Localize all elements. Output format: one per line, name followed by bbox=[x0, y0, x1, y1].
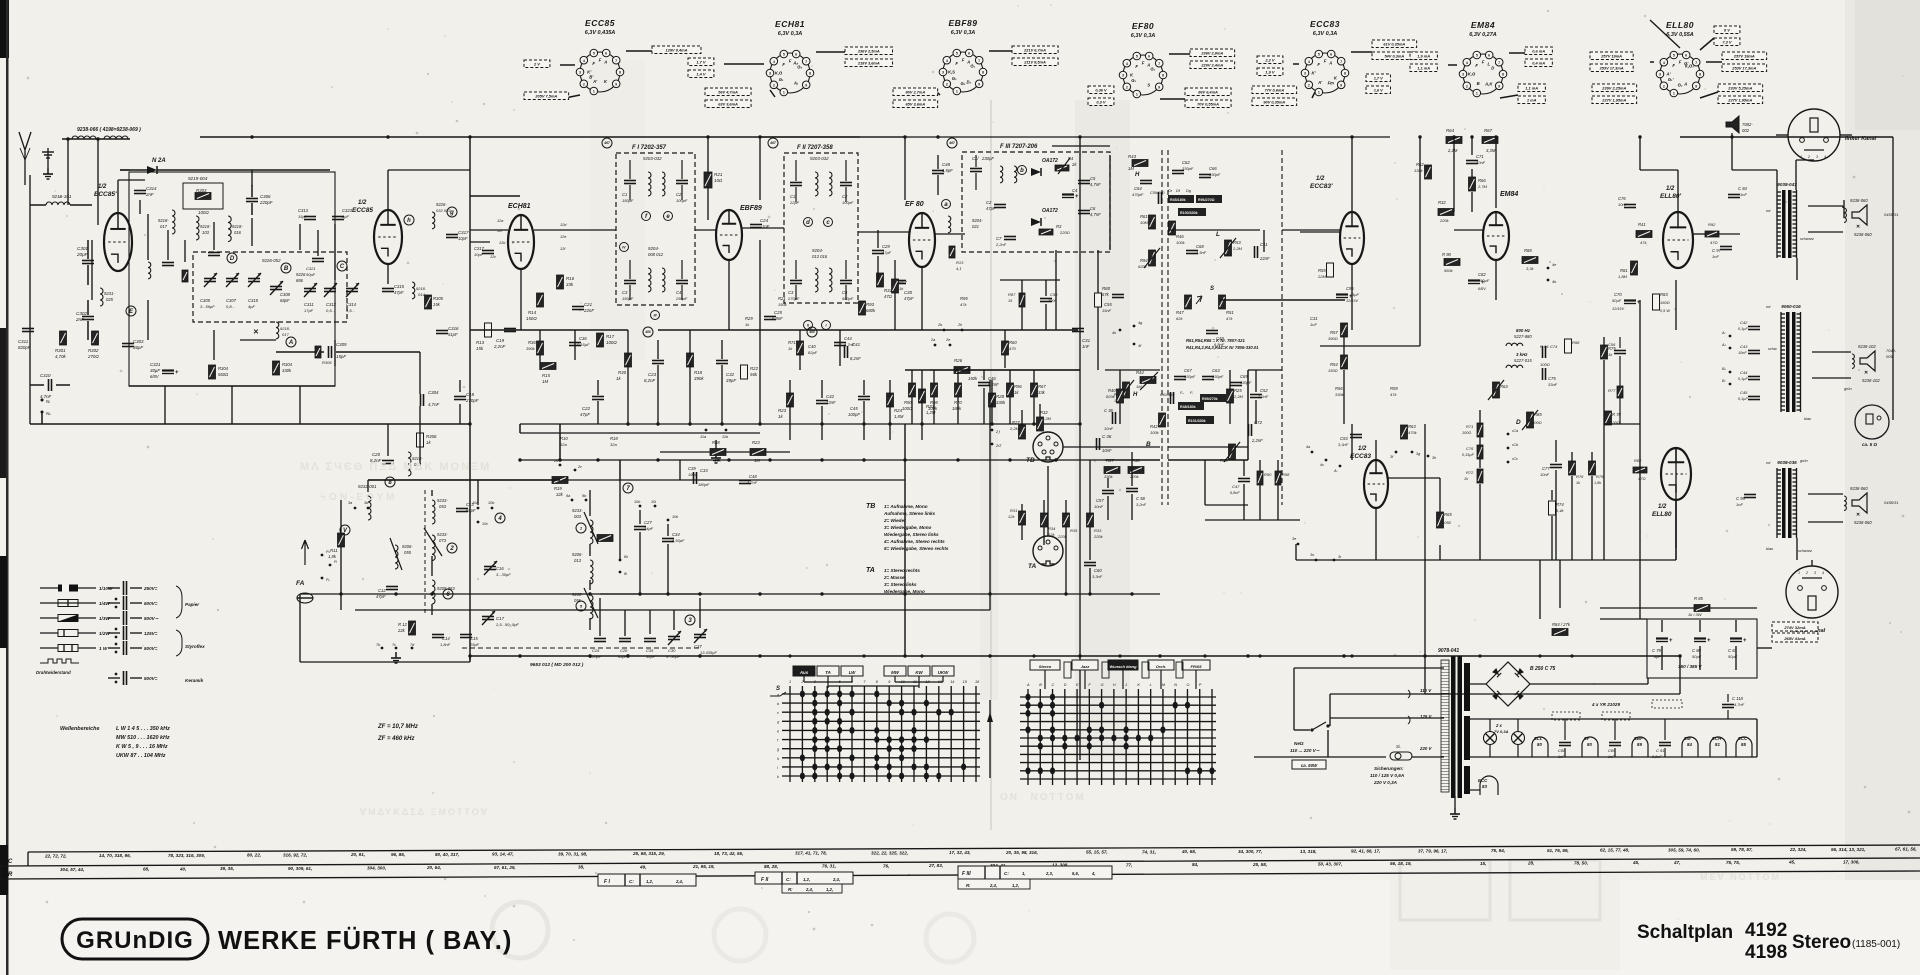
svg-text:500V∼: 500V∼ bbox=[144, 616, 159, 621]
svg-text:820k: 820k bbox=[1106, 394, 1116, 399]
svg-text:G: G bbox=[1101, 683, 1104, 687]
svg-text:74, 31,: 74, 31, bbox=[1142, 849, 1156, 854]
svg-text:TB: TB bbox=[1026, 457, 1035, 464]
svg-text:218V 3,6mA: 218V 3,6mA bbox=[857, 60, 880, 65]
svg-text:R87: R87 bbox=[1008, 292, 1016, 297]
svg-text:9218-: 9218- bbox=[200, 224, 211, 229]
svg-text:125V=: 125V= bbox=[144, 631, 158, 636]
svg-text:O: O bbox=[1186, 683, 1189, 687]
svg-text:R34: R34 bbox=[1048, 526, 1056, 531]
capacitor C13 58pF bbox=[456, 508, 468, 510]
svg-text:7V 0,3A: 7V 0,3A bbox=[1494, 729, 1509, 734]
svg-text:25, 58,: 25, 58, bbox=[1252, 862, 1267, 867]
wires mid lower bbox=[863, 380, 865, 395]
caps C74 C75 bbox=[1542, 346, 1544, 358]
svg-text:013 016: 013 016 bbox=[812, 254, 828, 259]
svg-text:4,1: 4,1 bbox=[956, 266, 962, 271]
svg-text:ECC: ECC bbox=[1738, 736, 1748, 741]
svg-text:800 Hz: 800 Hz bbox=[1516, 328, 1531, 333]
resistor R68 boxed bbox=[1565, 339, 1572, 353]
svg-text:58pF: 58pF bbox=[466, 508, 476, 513]
svg-text:C30: C30 bbox=[668, 648, 676, 653]
capacitor C70 50uF bbox=[1624, 299, 1636, 301]
svg-text:1: 1 bbox=[956, 90, 958, 94]
svg-text:221V 6,7mA: 221V 6,7mA bbox=[1023, 47, 1046, 52]
svg-text:1k: 1k bbox=[778, 414, 783, 419]
extra cluster x1250 y450 bbox=[1257, 471, 1263, 485]
heater chain top wire bbox=[1466, 718, 1757, 720]
svg-text:11a: 11a bbox=[700, 435, 706, 439]
bus y480 extension bbox=[620, 479, 905, 481]
svg-text:LW: LW bbox=[849, 670, 856, 675]
svg-text:016: 016 bbox=[234, 230, 242, 235]
svg-text:7: 7 bbox=[1498, 61, 1500, 65]
svg-text:15k: 15k bbox=[433, 302, 441, 307]
svg-text:Wellenbereiche: Wellenbereiche bbox=[60, 726, 99, 732]
svg-text:R35: R35 bbox=[1070, 528, 1078, 533]
resistor R61 10M bbox=[1149, 215, 1156, 229]
svg-text:100k: 100k bbox=[1176, 240, 1186, 245]
svg-text:R72: R72 bbox=[1466, 470, 1474, 475]
svg-text:R21: R21 bbox=[778, 296, 786, 301]
svg-text:R43: R43 bbox=[1128, 154, 1137, 159]
svg-text:R88: R88 bbox=[712, 440, 720, 445]
capacitor C31 1nF bbox=[1072, 328, 1084, 330]
svg-text:12d: 12d bbox=[560, 223, 567, 227]
svg-text:83: 83 bbox=[1482, 784, 1487, 789]
capacitor C23 8,2nF bbox=[652, 360, 664, 362]
svg-text:2,2nF: 2,2nF bbox=[995, 242, 1007, 247]
svg-text:B: B bbox=[1039, 683, 1042, 687]
svg-text:1,5nF: 1,5nF bbox=[1196, 250, 1207, 255]
svg-text:TA: TA bbox=[825, 670, 831, 675]
resistor R42 100k bbox=[1159, 413, 1166, 427]
svg-text:+: + bbox=[1743, 638, 1747, 644]
svg-text:Si.: Si. bbox=[1396, 744, 1401, 749]
F II inner wires bbox=[795, 160, 797, 181]
svg-text:+: + bbox=[1669, 638, 1673, 644]
svg-text:470pF: 470pF bbox=[1132, 192, 1144, 197]
svg-text:55, 15, 57,: 55, 15, 57, bbox=[1086, 850, 1108, 855]
svg-text:56k: 56k bbox=[750, 372, 758, 377]
svg-text:8: 8 bbox=[809, 72, 811, 76]
svg-text:6,3V 0,55A: 6,3V 0,55A bbox=[1666, 32, 1694, 38]
earth symbol bbox=[47, 148, 49, 168]
svg-text:110 V: 110 V bbox=[1420, 688, 1432, 693]
svg-text:R28: R28 bbox=[996, 394, 1005, 399]
svg-text:R95: R95 bbox=[960, 296, 968, 301]
svg-text:e: e bbox=[777, 729, 779, 733]
svg-text:10pF: 10pF bbox=[474, 252, 484, 257]
svg-text:1 mA: 1 mA bbox=[1527, 97, 1537, 102]
capacitor C25 6,8nF bbox=[764, 316, 776, 318]
svg-text:R66: R66 bbox=[1478, 178, 1486, 183]
electrolytic bank box bbox=[1647, 619, 1757, 678]
svg-text:350 / 385 V: 350 / 385 V bbox=[1678, 664, 1702, 669]
resistor R96 1k bbox=[1007, 383, 1014, 397]
svg-text:9653 012 ( MD 200 012 ): 9653 012 ( MD 200 012 ) bbox=[530, 662, 584, 668]
svg-text:Aus: Aus bbox=[799, 670, 809, 675]
x905 upper vertical bbox=[904, 424, 906, 656]
resistor R88b 3,3k bbox=[1522, 257, 1538, 264]
F I inner wires bbox=[629, 160, 631, 179]
svg-text:J: J bbox=[1124, 683, 1127, 687]
svg-text:Bₗ: Bₗ bbox=[1722, 379, 1726, 383]
svg-text:4pF: 4pF bbox=[248, 304, 255, 309]
svg-text:3: 3 bbox=[769, 72, 771, 76]
svg-text:R54: R54 bbox=[1330, 362, 1338, 367]
svg-text:27, 83,: 27, 83, bbox=[928, 863, 943, 868]
svg-text:100k: 100k bbox=[928, 406, 938, 411]
svg-text:C315: C315 bbox=[248, 298, 259, 303]
svg-text:80, 22,: 80, 22, bbox=[247, 853, 261, 858]
svg-text:•Cb: •Cb bbox=[1512, 443, 1518, 447]
svg-text:220k: 220k bbox=[1439, 218, 1450, 223]
svg-text:1nF: 1nF bbox=[1082, 344, 1090, 349]
svg-text:C5: C5 bbox=[1090, 176, 1096, 181]
capacitor C12 47pF bbox=[386, 586, 398, 588]
svg-text:C49: C49 bbox=[1216, 336, 1224, 341]
svg-text:330pF: 330pF bbox=[1212, 374, 1224, 379]
svg-text:R304: R304 bbox=[282, 362, 293, 367]
svg-text:7: 7 bbox=[615, 59, 617, 63]
resistor R82 47 bbox=[1633, 467, 1647, 473]
svg-text:467: 467 bbox=[948, 141, 956, 145]
svg-text:50µF: 50µF bbox=[1612, 298, 1622, 303]
svg-text:15,: 15, bbox=[1480, 861, 1486, 866]
svg-text:220 V: 220 V bbox=[1419, 746, 1433, 751]
svg-text:500V=: 500V= bbox=[144, 601, 158, 606]
svg-text:47pF: 47pF bbox=[580, 412, 590, 417]
svg-text:C: C bbox=[1052, 683, 1055, 687]
svg-text:1 W: 1 W bbox=[99, 646, 108, 651]
svg-text:F: F bbox=[1679, 59, 1682, 64]
svg-text:MW 510 . . . 1620 kHz: MW 510 . . . 1620 kHz bbox=[116, 735, 170, 741]
capacitor C82 50uF bbox=[1468, 279, 1480, 281]
circled h bbox=[404, 215, 414, 225]
svg-text:3e: 3e bbox=[1292, 537, 1296, 541]
svg-text:ELL80: ELL80 bbox=[1652, 511, 1672, 518]
svg-text:8 V: 8 V bbox=[1724, 27, 1730, 32]
svg-text:15k: 15k bbox=[476, 346, 484, 351]
svg-text:2,2M: 2,2M bbox=[1233, 394, 1244, 399]
svg-text:Fₑ: Fₑ bbox=[1180, 391, 1184, 395]
svg-text:4: 4 bbox=[1308, 60, 1310, 64]
svg-text:Jazz: Jazz bbox=[1081, 664, 1089, 669]
svg-text:9b: 9b bbox=[582, 494, 586, 498]
circled C bbox=[337, 261, 347, 271]
svg-text:2,2M: 2,2M bbox=[1232, 246, 1243, 251]
svg-text:40, 68,: 40, 68, bbox=[1181, 849, 1196, 854]
svg-text:330pF: 330pF bbox=[1240, 380, 1252, 385]
ECH81 wires bbox=[470, 229, 508, 231]
svg-text:390k: 390k bbox=[694, 376, 704, 381]
svg-text:UKW 87 . . 104 MHz: UKW 87 . . 104 MHz bbox=[116, 753, 166, 759]
svg-text:h: h bbox=[407, 218, 411, 224]
svg-text:5= Wiedergabe, Stereo rechts: 5= Wiedergabe, Stereo rechts bbox=[884, 546, 949, 551]
svg-text:C22: C22 bbox=[582, 406, 591, 411]
svg-text:4,7nF: 4,7nF bbox=[1090, 212, 1101, 217]
svg-text:ⱯΜΔΥΚΔΣΔ ΞΜΟΤΤΟⱯ: ⱯΜΔΥΚΔΣΔ ΞΜΟΤΤΟⱯ bbox=[359, 807, 489, 817]
svg-text:14: 14 bbox=[950, 680, 954, 684]
svg-text:IV: IV bbox=[622, 245, 626, 249]
svg-text:EM: EM bbox=[1684, 736, 1691, 741]
svg-text:G₁': G₁' bbox=[1668, 77, 1675, 82]
svg-text:56, 314, 13, 321,: 56, 314, 13, 321, bbox=[1831, 847, 1865, 852]
capacitor C60 3,3nF bbox=[1084, 562, 1096, 564]
cap C80 50uF bbox=[1694, 637, 1706, 639]
resistor R80 67k bbox=[1095, 293, 1102, 307]
svg-text:F: F bbox=[955, 61, 958, 66]
svg-text:0,5...: 0,5... bbox=[326, 308, 335, 313]
svg-text:UKW: UKW bbox=[938, 670, 949, 675]
circled V bbox=[340, 525, 350, 535]
svg-text:9233-: 9233- bbox=[437, 498, 448, 503]
svg-text:EM84: EM84 bbox=[1500, 191, 1518, 198]
svg-text:220k: 220k bbox=[1093, 534, 1104, 539]
svg-text:2b: 2b bbox=[937, 323, 942, 327]
svg-text:R79: R79 bbox=[1596, 474, 1604, 479]
svg-text:90V 0,35mA: 90V 0,35mA bbox=[1263, 99, 1285, 104]
resistor R51 47k bbox=[1219, 295, 1226, 309]
svg-text:1k / 3W: 1k / 3W bbox=[1688, 612, 1703, 617]
svg-text:220pF: 220pF bbox=[259, 200, 273, 205]
svg-text:2c: 2c bbox=[577, 465, 582, 469]
svg-text:2: 2 bbox=[1663, 84, 1665, 88]
capacitor C321 30uF electrolytic bbox=[162, 369, 174, 371]
svg-text:C304: C304 bbox=[428, 390, 439, 395]
svg-text:80V 2,7mA: 80V 2,7mA bbox=[905, 89, 925, 94]
svg-text:Wunsch klang: Wunsch klang bbox=[1109, 664, 1137, 669]
capacitor C317 10pF bbox=[446, 234, 458, 236]
svg-text:14, 70, 318, 96,: 14, 70, 318, 96, bbox=[99, 853, 131, 858]
svg-text:R90: R90 bbox=[904, 400, 912, 405]
svg-text:560Ω: 560Ω bbox=[218, 372, 229, 377]
svg-text:12e: 12e bbox=[560, 235, 566, 239]
svg-text:3,3nF: 3,3nF bbox=[1092, 574, 1103, 579]
circled f e bbox=[642, 212, 651, 221]
svg-text:WERKE FÜRTH ( BAY.): WERKE FÜRTH ( BAY.) bbox=[218, 926, 512, 955]
svg-text:10c: 10c bbox=[482, 522, 488, 526]
svg-text:F: F bbox=[1142, 60, 1145, 65]
svg-text:9238-102: 9238-102 bbox=[1858, 344, 1876, 349]
svg-text:12k: 12k bbox=[1048, 532, 1055, 537]
svg-text:C3: C3 bbox=[788, 290, 794, 295]
right matrix contact dots bbox=[1025, 694, 1030, 701]
svg-text:C64: C64 bbox=[1134, 186, 1142, 191]
svg-text:6,3V 0,3A: 6,3V 0,3A bbox=[1131, 33, 1155, 39]
mains switch bbox=[1294, 729, 1310, 731]
svg-text:68pF: 68pF bbox=[280, 298, 290, 303]
mains wires bbox=[1329, 718, 1331, 726]
svg-text:62, 15, 77, 48,: 62, 15, 77, 48, bbox=[1600, 848, 1629, 853]
svg-text:C306: C306 bbox=[260, 194, 271, 199]
svg-text:055: 055 bbox=[404, 550, 412, 555]
svg-text:F: F bbox=[599, 57, 602, 62]
svg-text:45,: 45, bbox=[1632, 860, 1639, 865]
extra cluster x1010-1100 y260-330 bbox=[1019, 293, 1025, 307]
fold crease arrow bbox=[989, 700, 991, 778]
svg-text:3µF: 3µF bbox=[1352, 292, 1360, 297]
svg-text:ECC83: ECC83 bbox=[1310, 19, 1340, 29]
capacitor C64 470pF bbox=[1140, 180, 1152, 182]
resistor R83 160 bbox=[1653, 294, 1660, 310]
svg-text:✕: ✕ bbox=[1856, 512, 1860, 518]
resistor R304 560 bbox=[209, 365, 216, 379]
wire joints under EBF89 bbox=[789, 380, 791, 396]
svg-text:C82: C82 bbox=[1478, 272, 1486, 277]
svg-text:032 023: 032 023 bbox=[436, 208, 451, 213]
boxed resistor R101/330k bbox=[1186, 416, 1214, 424]
svg-text:11b: 11b bbox=[722, 435, 728, 439]
F III index box bbox=[958, 866, 1112, 879]
svg-text:2a: 2a bbox=[930, 338, 935, 342]
svg-text:3h: 3h bbox=[1432, 456, 1436, 460]
svg-text:2,2nF: 2,2nF bbox=[1257, 394, 1269, 399]
svg-text:9: 9 bbox=[1498, 84, 1500, 88]
svg-text:2ƒ: 2ƒ bbox=[995, 430, 1000, 434]
svg-text:220V 2,4mA: 220V 2,4mA bbox=[1200, 62, 1223, 67]
svg-text:0459/31: 0459/31 bbox=[1884, 212, 1898, 217]
svg-text:3: 3 bbox=[1816, 155, 1818, 159]
svg-text:10h: 10h bbox=[634, 500, 640, 504]
wires TA group bbox=[1021, 504, 1023, 511]
svg-text:9226-: 9226- bbox=[436, 202, 447, 207]
svg-text:R46: R46 bbox=[1176, 234, 1184, 239]
svg-text:ΟΝ ΢ ΝΟΤΤΟΜ: ΟΝ ΢ ΝΟΤΤΟΜ bbox=[1000, 792, 1086, 803]
svg-text:9226-052: 9226-052 bbox=[262, 258, 281, 263]
variable capacitor C308 68pF bbox=[270, 286, 282, 288]
svg-text:9218-101: 9218-101 bbox=[52, 194, 72, 199]
svg-text:211V 8,5mA: 211V 8,5mA bbox=[1023, 59, 1046, 64]
svg-text:12c: 12c bbox=[490, 255, 496, 259]
capacitor C45 100pF bbox=[858, 396, 870, 398]
svg-text:17, 306,: 17, 306, bbox=[1843, 859, 1860, 864]
extra vertical drops middle bbox=[539, 330, 541, 370]
svg-text:2Ɠ: 2Ɠ bbox=[995, 444, 1002, 448]
svg-text:R18: R18 bbox=[610, 436, 618, 441]
svg-text:C 91: C 91 bbox=[1656, 748, 1664, 753]
svg-text:ECH81: ECH81 bbox=[508, 203, 531, 210]
svg-text:R76: R76 bbox=[1576, 474, 1584, 479]
resistor R306 1k bbox=[417, 433, 424, 447]
terminals 11a 11b bbox=[705, 429, 708, 432]
svg-text:003: 003 bbox=[574, 514, 582, 519]
svg-text:1: 1 bbox=[1136, 93, 1138, 97]
DIN socket TA bbox=[1033, 536, 1063, 566]
resistor R22 56k bbox=[741, 365, 748, 379]
svg-text:B: B bbox=[1477, 81, 1480, 86]
resistor R31 47 bbox=[877, 273, 884, 287]
svg-text:R71: R71 bbox=[1466, 424, 1473, 429]
svg-text:C40: C40 bbox=[808, 344, 816, 349]
svg-text:C75: C75 bbox=[1548, 376, 1556, 381]
svg-text:R21: R21 bbox=[714, 172, 723, 177]
svg-text:Stereo: Stereo bbox=[1792, 932, 1851, 953]
svg-text:021: 021 bbox=[972, 224, 979, 229]
svg-text:ca. 5 Ω: ca. 5 Ω bbox=[1862, 442, 1877, 447]
long bus wires center bbox=[520, 423, 905, 425]
svg-text:8i: 8i bbox=[624, 572, 627, 576]
svg-text:1/2: 1/2 bbox=[358, 200, 367, 206]
svg-text:75, 94,: 75, 94, bbox=[1491, 848, 1505, 853]
right switch matrix bbox=[1020, 696, 1216, 698]
svg-text:103: 103 bbox=[202, 230, 210, 235]
svg-text:C314: C314 bbox=[146, 186, 157, 191]
svg-text:L W 1 4 5 . . . 350 kHz: L W 1 4 5 . . . 350 kHz bbox=[116, 726, 170, 732]
svg-text:C2: C2 bbox=[986, 200, 992, 205]
capacitor C306 220pF bbox=[246, 198, 258, 200]
svg-text:Nₗ: Nₗ bbox=[46, 399, 50, 404]
F III C4 5uF bbox=[1062, 193, 1074, 195]
svg-text:A: A bbox=[1328, 61, 1332, 66]
svg-text:017: 017 bbox=[282, 332, 289, 337]
svg-text:2,2M: 2,2M bbox=[1009, 426, 1020, 431]
svg-text:47,: 47, bbox=[1673, 860, 1680, 865]
svg-text:2,2 V: 2,2 V bbox=[1264, 57, 1274, 62]
mid horizontal wires decoder bbox=[1105, 369, 1160, 371]
resistors R90 R98 R70 group bbox=[909, 383, 916, 397]
svg-text:C 36: C 36 bbox=[1104, 408, 1114, 413]
pot R94 620k bbox=[1149, 250, 1156, 266]
svg-text:R3: R3 bbox=[1056, 224, 1062, 229]
resistor R301 4,7k bbox=[60, 331, 67, 345]
capacitor C49 6,8nF bbox=[1206, 330, 1218, 332]
svg-text:9204-: 9204- bbox=[812, 248, 824, 253]
svg-text:C45: C45 bbox=[850, 406, 858, 411]
svg-text:C4: C4 bbox=[676, 290, 682, 295]
svg-text:89: 89 bbox=[1637, 742, 1642, 747]
svg-text:R64: R64 bbox=[1446, 128, 1455, 133]
svg-text:C317: C317 bbox=[474, 246, 485, 251]
resistor R26 150k bbox=[954, 367, 970, 374]
svg-text:8,2nF: 8,2nF bbox=[644, 378, 656, 383]
resistor R28 330k bbox=[989, 393, 996, 407]
svg-text:1/2: 1/2 bbox=[1666, 186, 1675, 192]
svg-text:2= Wieder: 2= Wieder bbox=[883, 518, 906, 523]
capacitor C36b 10nF bbox=[1112, 412, 1114, 424]
svg-text:7: 7 bbox=[1158, 62, 1160, 66]
svg-text:R23: R23 bbox=[752, 440, 760, 445]
svg-text:10nF: 10nF bbox=[1618, 202, 1628, 207]
svg-text:R16: R16 bbox=[566, 276, 575, 281]
svg-text:150pF: 150pF bbox=[622, 296, 634, 301]
svg-text:330pF: 330pF bbox=[1182, 166, 1194, 171]
svg-text:R 90: R 90 bbox=[1442, 252, 1452, 257]
svg-text:3...56pF: 3...56pF bbox=[200, 304, 215, 309]
coil 9218-017 b bbox=[408, 452, 411, 476]
svg-text:G₁: G₁ bbox=[1131, 78, 1136, 83]
svg-text:C310: C310 bbox=[40, 373, 51, 378]
EF80 wires bbox=[858, 231, 909, 233]
svg-text:C39: C39 bbox=[688, 466, 696, 471]
svg-text:F III 7207-206: F III 7207-206 bbox=[1000, 144, 1038, 150]
svg-text:4e: 4e bbox=[1552, 263, 1556, 267]
svg-text:2,4,: 2,4, bbox=[832, 877, 840, 882]
svg-text:H: H bbox=[1113, 683, 1116, 687]
svg-text:3,2nF: 3,2nF bbox=[1136, 502, 1147, 507]
svg-text:2,3,: 2,3, bbox=[1045, 871, 1053, 876]
svg-text:7040-: 7040- bbox=[1886, 348, 1897, 353]
svg-text:R: R bbox=[8, 872, 13, 878]
svg-text:480: 480 bbox=[808, 330, 815, 334]
svg-text:F: F bbox=[592, 61, 595, 66]
resistor R12 22k bbox=[409, 621, 416, 635]
svg-text:R19: R19 bbox=[554, 486, 562, 491]
svg-text:F: F bbox=[1317, 62, 1320, 67]
svg-text:15nF: 15nF bbox=[1102, 308, 1112, 313]
DIN socket TB bbox=[1033, 432, 1063, 462]
